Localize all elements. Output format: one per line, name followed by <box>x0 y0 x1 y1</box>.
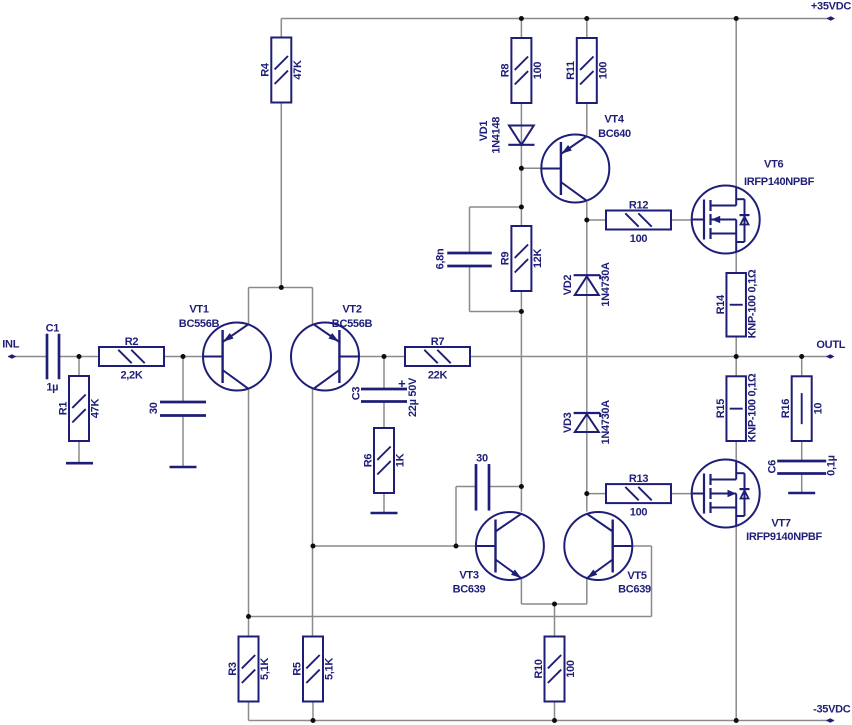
svg-text:30: 30 <box>476 453 488 465</box>
svg-text:VD2: VD2 <box>562 275 574 296</box>
svg-text:VT2: VT2 <box>342 304 361 316</box>
svg-text:+35VDC: +35VDC <box>811 0 851 12</box>
svg-text:0,1µ: 0,1µ <box>826 455 838 475</box>
svg-text:R16: R16 <box>780 399 792 418</box>
svg-text:R3: R3 <box>227 662 239 676</box>
svg-text:BC640: BC640 <box>598 128 631 140</box>
svg-text:100: 100 <box>532 62 544 80</box>
svg-text:5,1K: 5,1K <box>259 658 271 680</box>
svg-text:47K: 47K <box>90 399 102 419</box>
svg-text:VD1: VD1 <box>478 121 490 142</box>
svg-text:VT5: VT5 <box>627 570 646 582</box>
svg-text:VT7: VT7 <box>771 518 790 530</box>
svg-text:-35VDC: -35VDC <box>813 704 851 716</box>
svg-text:100: 100 <box>597 62 609 80</box>
svg-text:C6: C6 <box>767 460 779 474</box>
svg-text:R12: R12 <box>629 200 648 212</box>
svg-text:VT1: VT1 <box>189 304 208 316</box>
svg-text:R15: R15 <box>715 399 727 418</box>
svg-text:5,1K: 5,1K <box>324 658 336 680</box>
svg-text:INL: INL <box>2 339 19 351</box>
svg-text:1K: 1K <box>395 453 407 467</box>
svg-text:100: 100 <box>630 233 648 245</box>
svg-text:BC556B: BC556B <box>332 318 373 330</box>
svg-text:IRFP140NPBF: IRFP140NPBF <box>744 176 815 188</box>
svg-text:+: + <box>398 376 406 391</box>
svg-text:R6: R6 <box>362 454 374 468</box>
svg-text:OUTL: OUTL <box>816 339 845 351</box>
svg-text:R1: R1 <box>57 402 69 416</box>
svg-text:C3: C3 <box>351 387 363 401</box>
svg-text:IRFP9140NPBF: IRFP9140NPBF <box>746 531 822 543</box>
svg-text:VT6: VT6 <box>764 159 783 171</box>
svg-text:1N4730A: 1N4730A <box>600 262 612 307</box>
svg-text:1N4148: 1N4148 <box>491 117 503 154</box>
svg-text:VD3: VD3 <box>562 412 574 433</box>
svg-text:47K: 47K <box>292 60 304 80</box>
svg-text:R8: R8 <box>500 64 512 78</box>
svg-text:30: 30 <box>148 402 160 414</box>
svg-text:R10: R10 <box>533 659 545 678</box>
svg-text:R5: R5 <box>291 662 303 676</box>
svg-text:KNP-100 0,1Ω: KNP-100 0,1Ω <box>747 269 759 338</box>
svg-text:22K: 22K <box>428 370 448 382</box>
svg-text:12K: 12K <box>532 249 544 269</box>
svg-text:R9: R9 <box>500 252 512 266</box>
svg-text:VT4: VT4 <box>604 114 624 126</box>
svg-text:KNP-100 0,1Ω: KNP-100 0,1Ω <box>747 373 759 442</box>
svg-text:R7: R7 <box>431 336 445 348</box>
svg-text:10: 10 <box>812 403 824 415</box>
svg-text:100: 100 <box>630 507 648 519</box>
svg-text:BC556B: BC556B <box>179 318 220 330</box>
svg-text:R13: R13 <box>629 473 648 485</box>
svg-text:1µ: 1µ <box>46 382 58 394</box>
svg-text:100: 100 <box>565 660 577 678</box>
svg-text:22µ 50V: 22µ 50V <box>407 377 419 417</box>
svg-text:BC639: BC639 <box>453 584 486 596</box>
svg-text:C1: C1 <box>46 323 60 335</box>
svg-text:1N4730A: 1N4730A <box>600 400 612 445</box>
svg-text:2,2K: 2,2K <box>120 370 142 382</box>
svg-text:R11: R11 <box>565 61 577 80</box>
svg-text:R2: R2 <box>125 336 139 348</box>
svg-text:BC639: BC639 <box>618 584 651 596</box>
svg-text:R4: R4 <box>260 62 272 77</box>
svg-text:VT3: VT3 <box>459 570 478 582</box>
svg-text:6,8n: 6,8n <box>435 248 447 269</box>
svg-text:R14: R14 <box>715 294 727 314</box>
